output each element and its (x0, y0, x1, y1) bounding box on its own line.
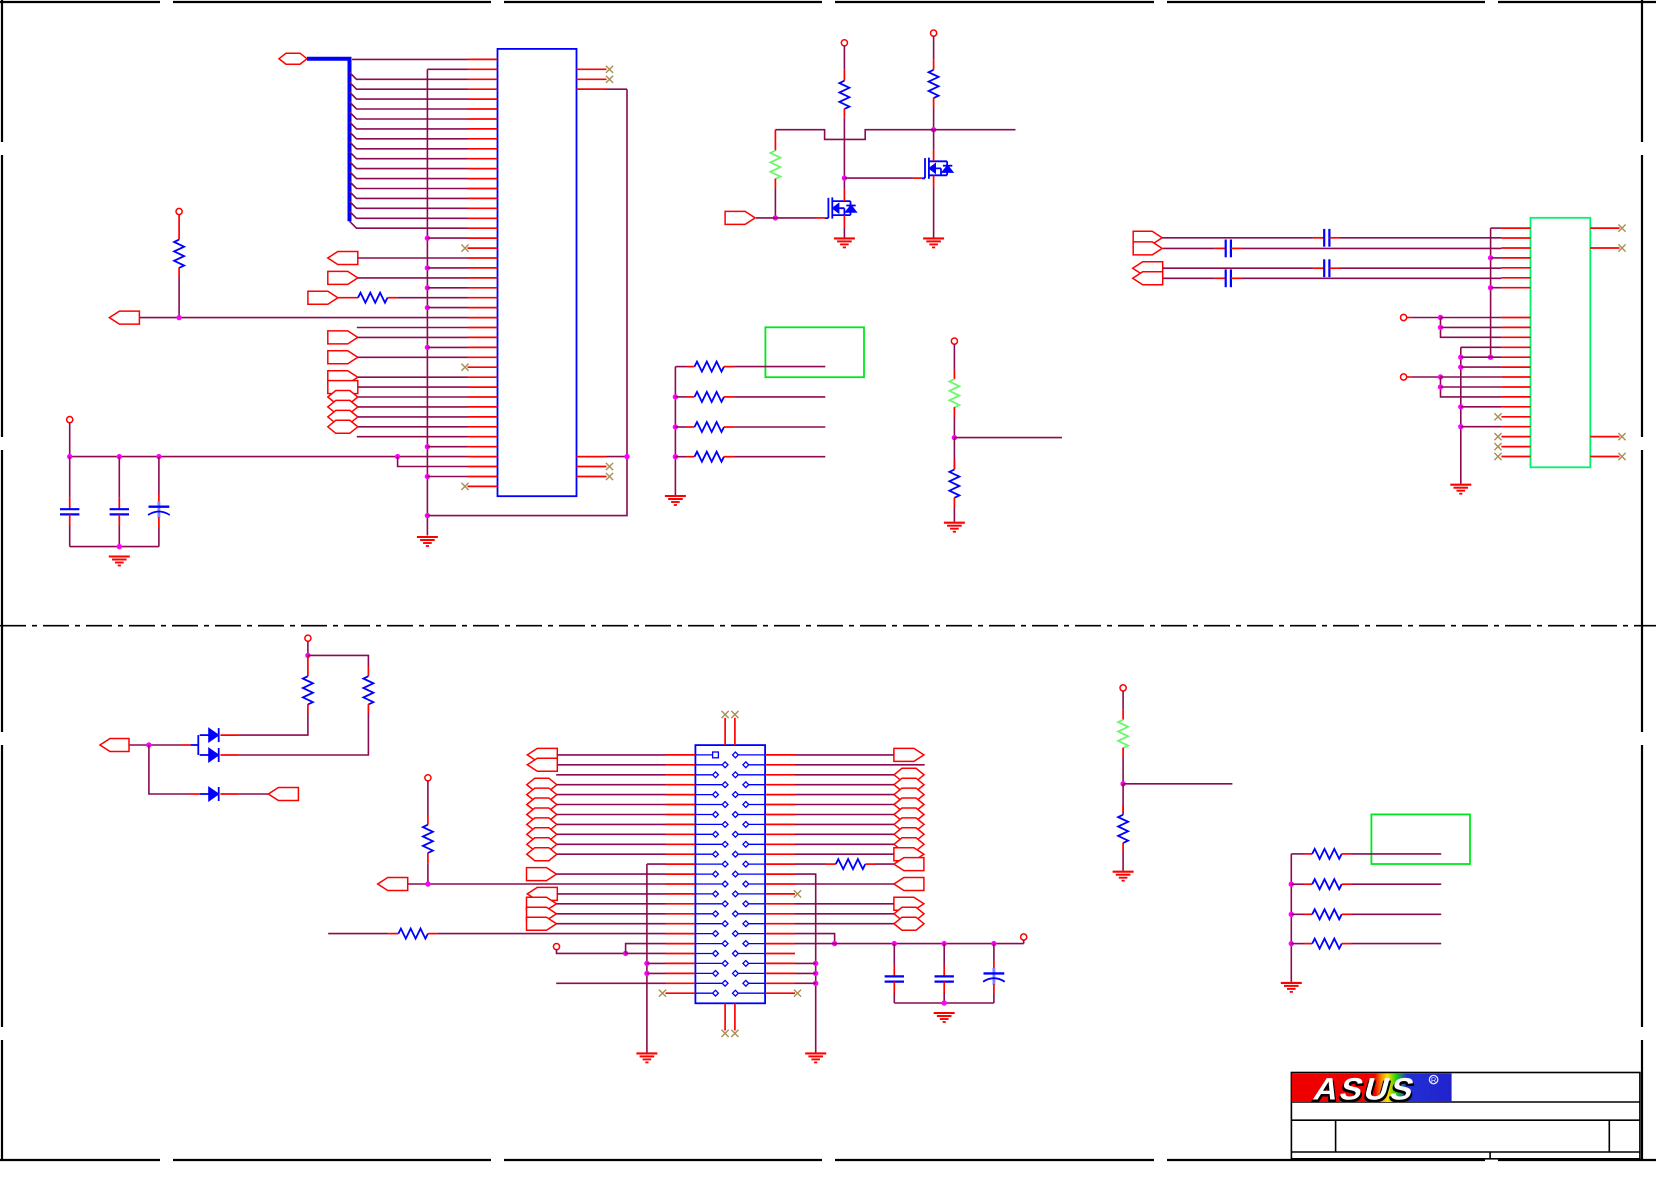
wire row0 to U1 (352, 58, 468, 60)
wire J1 R2 (795, 764, 925, 766)
pin stub C6 bottom (943, 982, 945, 993)
wire R5 to input (774, 189, 776, 218)
wire C3 lower (158, 527, 160, 547)
no-connect J1 bottom (722, 1030, 729, 1037)
wire port row20 (358, 257, 468, 259)
wire J1 L2 (557, 764, 665, 766)
pin stub RN2 right (724, 396, 734, 398)
no-connect J1 top (722, 711, 729, 718)
pin stub R15 top (1122, 805, 1124, 815)
power symbol P11 (1021, 934, 1027, 940)
pin stub U1 left pin 26 (468, 307, 498, 309)
wire diff2 b (1242, 247, 1501, 249)
wire RN1 out (734, 366, 825, 368)
bus entry wire row4 (350, 92, 468, 99)
pin stub U1 left pin 14 (468, 188, 498, 190)
power symbol P2 (931, 30, 937, 36)
wire P3 to bus3 (1411, 317, 1440, 319)
pin stub U3 left 5 (1501, 267, 1530, 269)
port J1 R14 (894, 878, 924, 891)
pin stub U1 left pin 22 (468, 267, 498, 269)
pin stub J1 left 10 (666, 843, 696, 845)
wire port row22 (358, 277, 468, 279)
wire C6 lead (943, 944, 945, 965)
pin stub U1 right pin41 (577, 466, 607, 468)
wire caps2 bottom bus (894, 1002, 994, 1004)
port J1 R8 (894, 818, 924, 831)
junction right bus (624, 454, 629, 459)
pin stub J1 left 4 (666, 784, 696, 786)
wire P6 down (69, 423, 71, 457)
pin stub J1 left 15 (666, 893, 696, 895)
port J1 R16 (894, 897, 924, 910)
wire J1 L1 (557, 754, 665, 756)
wire J1 R3 (795, 774, 894, 776)
no-connect U1 left pin20 (461, 245, 468, 252)
junction RN row4 (673, 454, 678, 459)
wire J1 L14 (408, 883, 666, 885)
pin stub J1 left 6 (666, 804, 696, 806)
pin stub D3 cathode (220, 793, 238, 795)
pin stub C5 top (893, 965, 895, 977)
wire bus2 row12 (1461, 346, 1502, 348)
power symbol P9 (951, 338, 957, 344)
pin stub R13 left (826, 863, 836, 865)
junction rail m (991, 941, 996, 946)
pin stub U3 left 3 (1501, 247, 1530, 249)
bus entry wire row6 (350, 112, 468, 119)
wire divider2 out (1123, 783, 1232, 785)
port out TX+ arrow (1133, 231, 1162, 244)
pin stub U3 left 6 (1501, 277, 1530, 279)
port J1 R18 (894, 917, 924, 930)
junction cap bus j (156, 454, 161, 459)
resistor RN2 (695, 392, 725, 402)
resistor R16 (423, 825, 433, 853)
pin stub U1 left pin 43 (468, 476, 498, 478)
port J1 R6 (894, 798, 924, 811)
pin stub J1 bottom (724, 1003, 726, 1030)
pin stub C6 right (1329, 267, 1340, 269)
ground Q1 (834, 238, 855, 247)
ground caps (109, 557, 130, 566)
pin stub U1 left pin 17 (468, 217, 498, 219)
pin stub R3 bottom (843, 109, 845, 118)
wire R9 to gnd (953, 507, 955, 522)
wire bus to U1 row39 (427, 446, 467, 448)
junction P7 node (305, 653, 310, 658)
pin stub R14 top (1122, 710, 1124, 720)
port bidir row37 (328, 420, 358, 433)
pin stub C7 right (1231, 277, 1242, 279)
pin stub RN2-4 right (1342, 943, 1352, 945)
pin stub J1 left 13 (666, 873, 696, 875)
pin stub U1 left pin 5 (468, 98, 498, 100)
pin stub U1 left pin 42 (468, 466, 498, 468)
wire diff4 b (1242, 277, 1501, 279)
port input gate (725, 211, 755, 224)
pin stub R10 top (307, 655, 309, 676)
wire C1 lead (69, 457, 71, 498)
wire diode anode lead (191, 744, 199, 746)
wire U3 bus1 (1490, 228, 1492, 357)
bus entry wire row2 (350, 72, 468, 79)
wire RN2-2 out (1352, 883, 1442, 885)
port J1 R1 (894, 748, 924, 761)
pin stub R13 right (865, 863, 875, 865)
wire port row36 (358, 416, 468, 418)
junction bus2 row20 (1458, 424, 1463, 429)
capacitor C6 (1324, 259, 1329, 277)
pin stub R7 top (178, 215, 180, 240)
wire C3 lead (158, 457, 160, 494)
wire P7 down (307, 641, 309, 655)
junction rail k (892, 941, 897, 946)
pin stub C3 bottom (158, 518, 160, 528)
junction gnd bus row21 (644, 961, 649, 966)
wire RN2-2 lead (1291, 883, 1303, 885)
wire RN2 bus (1290, 854, 1292, 982)
wire J1 R9 (795, 833, 894, 835)
pin stub C5 left (1215, 247, 1226, 249)
power symbol P7 (305, 635, 311, 641)
pin stub U1 left pin 24 (468, 287, 498, 289)
pin stub U1 left pin 3 (468, 78, 498, 80)
bus entry wire row10 (350, 152, 468, 159)
wire RN2 out (734, 396, 825, 398)
pin stub J1 left 7 (666, 814, 696, 816)
pin stub C4 right (1329, 237, 1340, 239)
pin stub U1 left pin 33 (468, 376, 498, 378)
pin stub J1 left 16 (666, 903, 696, 905)
junction RN2 row2 (1289, 882, 1294, 887)
diode D3 (200, 787, 219, 801)
port bidir row34 (328, 391, 358, 404)
wire J1 R14 (795, 883, 894, 885)
wire P12 down (427, 781, 429, 816)
pin stub J1 right 19 (765, 933, 795, 935)
pin stub U1 left pin 44 (468, 485, 498, 487)
wire vertical bus U1 left (426, 69, 428, 535)
port J1 L11 (527, 848, 557, 861)
pin stub U3 right 3 (1590, 247, 1619, 249)
svg-text:ASUS: ASUS (1310, 1072, 1420, 1106)
pin stub U1 left pin 34 (468, 386, 498, 388)
section divider dash-dot line (0, 625, 1656, 627)
port J1 L13 (527, 868, 557, 881)
wire port row37 (358, 426, 468, 428)
wire P8 stub (1122, 691, 1124, 710)
resistor R11 (363, 676, 373, 704)
wire bus to U1 row23 (427, 287, 467, 289)
svg-text:R: R (1431, 1075, 1437, 1084)
pin stub Q2 drain (933, 150, 935, 162)
wire U1 right pin3 (577, 88, 628, 90)
wire J1 L17 (557, 913, 666, 915)
power symbol P3 (1401, 314, 1407, 320)
wire port row30 (358, 356, 468, 358)
junction divider node (952, 435, 957, 440)
pin stub U1 left pin 10 (468, 148, 498, 150)
capacitor C4 (1324, 229, 1329, 247)
wire Q2 source to gnd (933, 188, 935, 239)
resistor R10 (303, 676, 313, 704)
pin stub U1 left pin 6 (468, 108, 498, 110)
wire J1 L7 (557, 814, 666, 816)
wire J1 L19 a (328, 933, 388, 935)
wire RN2-1 lead (1291, 853, 1303, 855)
port J1 L7 (527, 808, 557, 821)
junction RN2 row4 (1289, 941, 1294, 946)
wire J1 L18 (557, 923, 666, 925)
pin stub U1 right pin3 (577, 88, 607, 90)
wire R15 to gnd (1122, 852, 1124, 871)
port J1 R7 (894, 808, 924, 821)
pin stub U1 left pin 12 (468, 168, 498, 170)
wire row38 (357, 436, 468, 438)
wire J1 L22 (647, 962, 666, 964)
bus entry wire row16 (350, 211, 468, 218)
bus entry wire row15 (350, 201, 468, 208)
pin stub R15 bottom (1122, 843, 1124, 852)
wire J1 L13 (557, 873, 666, 875)
wire RN2-4 out (1352, 943, 1442, 945)
power symbol P1 (841, 40, 847, 46)
port J1 L1 (527, 748, 557, 761)
junction right bus row21 (813, 961, 818, 966)
wire J1 R11 (795, 853, 894, 855)
pin stub R10 bottom (307, 704, 309, 713)
wire C5 lower (893, 993, 895, 1003)
wire port to Q1 gate (756, 217, 816, 219)
resistor R13 (836, 859, 866, 869)
pin stub R12 left (388, 933, 398, 935)
pin stub U1 left pin 41 (468, 456, 498, 458)
wire J1 L9 (557, 833, 666, 835)
wire J1 L12 from bus (647, 863, 666, 865)
pin stub J1 right 7 (765, 814, 795, 816)
wire P11 stub (1023, 940, 1025, 944)
wire J1 R17 (795, 913, 894, 915)
no-connect U1 right pin2 (606, 76, 613, 83)
junction cap bus i (117, 454, 122, 459)
pin stub U1 left pin 32 (468, 366, 498, 368)
pin stub J1 right 9 (765, 833, 795, 835)
wire bus2 row20 (1461, 426, 1502, 428)
pin stub J1 right 17 (765, 913, 795, 915)
junction R19 tap (832, 941, 837, 946)
wire RN2-4 lead (1291, 943, 1303, 945)
pin stub RN2-2 right (1342, 883, 1352, 885)
pin stub U1 right pin40 (577, 456, 607, 458)
power symbol P10 (553, 944, 559, 950)
no-connect U3 left row21 (1494, 433, 1501, 440)
bus entry wire row12 (350, 172, 468, 179)
wire RN3 out (734, 426, 825, 428)
pin stub resistor R6 right (388, 297, 398, 299)
wire bus2 row13 (1461, 356, 1502, 358)
wire C6 lower (943, 993, 945, 1003)
resistor R15 (1118, 815, 1128, 843)
pin stub J1 left 3 (666, 774, 696, 776)
pin stub R11 top (367, 666, 369, 676)
junction b on U1 bus (425, 265, 430, 270)
pin stub C4 left (1313, 237, 1324, 239)
wire port row28 (358, 336, 468, 338)
port J1 R11 (894, 848, 924, 861)
wire diff3 b (1341, 267, 1502, 269)
pin stub U1 left pin 9 (468, 138, 498, 140)
port J1 L4 (527, 778, 557, 791)
pin stub J1 left 25 (666, 992, 696, 994)
junction RN2 row3 (1289, 912, 1294, 917)
pin stub U1 left pin 7 (468, 118, 498, 120)
port J1 R3 (894, 768, 924, 781)
pin stub D3 anode (190, 793, 200, 795)
pin stub J1 right 16 (765, 903, 795, 905)
pin stub J1 left 5 (666, 794, 696, 796)
annotation green box GB1 (765, 327, 864, 377)
wire J1 L24 (556, 982, 665, 984)
pin stub C7 top (993, 961, 995, 969)
junction right bus row22 (813, 971, 818, 976)
no-connect U3 left row19 (1494, 413, 1501, 420)
pin stub U1 left pin 19 (468, 237, 498, 239)
junction bus1 end (1488, 355, 1493, 360)
pin stub R5 bottom (774, 179, 776, 189)
ground U1 bus (417, 537, 438, 546)
wire RN2 lead (675, 396, 686, 398)
wire P7 branch (308, 655, 369, 666)
wire RN bus (674, 367, 676, 496)
port J1 L9 (527, 828, 557, 841)
capacitor C1 (60, 509, 79, 514)
bus entry wire row5 (350, 102, 468, 109)
wire J1 L10 (557, 843, 666, 845)
wire P4 stub (1407, 376, 1412, 378)
wire D3 out (239, 793, 269, 795)
junction c on U1 bus (425, 285, 430, 290)
port J1 R5 (894, 788, 924, 801)
wire R6 to U1 (397, 297, 467, 299)
port J1 L5 (527, 788, 557, 801)
port J1 L2 (527, 758, 557, 771)
wire bus to U1 row29 (427, 346, 467, 348)
port input ESD (100, 739, 129, 752)
power symbol P12 (425, 775, 431, 781)
junction P5 node (176, 315, 181, 320)
capacitor C3 polarized (148, 501, 170, 518)
wire P9 stub (953, 344, 955, 369)
wire P4 to bus4 (1411, 376, 1440, 378)
pin stub R7 bottom (178, 268, 180, 277)
pin stub C3 top (158, 494, 160, 502)
wire J1 R8 (795, 823, 894, 825)
wire diff2 a (1163, 247, 1215, 249)
wire Q1 source to gnd (843, 227, 845, 238)
pin stub J1 right 3 (765, 774, 795, 776)
wire diff1 a (1162, 237, 1313, 239)
pin stub RN2-3 left (1304, 913, 1313, 915)
wire J1 R12 b (875, 863, 894, 865)
pin stub RN2-1 left (1304, 853, 1313, 855)
pin stub R9 bottom (953, 498, 955, 508)
pin stub U1 left pin 20 (468, 247, 498, 249)
port DDC left arrow (328, 252, 358, 265)
junction caps2 bottom (942, 1000, 947, 1005)
wire anode to port (129, 744, 182, 746)
transistor Q2 (922, 158, 953, 179)
pin stub J1 left 14 (666, 883, 696, 885)
wire power rail row20 (795, 943, 1024, 945)
wire row27 (357, 327, 468, 329)
junction anode node (146, 742, 151, 747)
pin stub U1 left pin 31 (468, 356, 498, 358)
wire R14 to node (1122, 757, 1124, 784)
pin stub U3 right 22 (1590, 436, 1619, 438)
wire R11 to D2 (239, 713, 369, 755)
resistor R8 green (949, 379, 959, 407)
wire P3 stub (1407, 317, 1412, 319)
pin stub U1 right pin1 (577, 68, 607, 70)
power symbol P6 (67, 417, 73, 423)
capacitor C5 (885, 976, 904, 981)
resistor RN3 (695, 422, 725, 432)
ground J1 right (805, 1053, 826, 1062)
pin stub J1 left 2 (666, 764, 696, 766)
pin stub R16 bottom (427, 853, 429, 864)
wire Q2 drain (933, 130, 935, 150)
pin stub J1 left 20 (666, 943, 696, 945)
port J1 R12 (894, 858, 924, 871)
wire J1 R16 (795, 903, 894, 905)
junction bus4 a (1438, 374, 1443, 379)
pin stub U3 left 13 (1501, 346, 1530, 348)
wire U1 right pin40 (607, 456, 628, 458)
bus entry wire row9 (350, 142, 468, 149)
wire C5 lead (893, 944, 895, 965)
pin stub J1 right 5 (765, 794, 795, 796)
wire J1 L15 (557, 893, 665, 895)
port J1 R9 (894, 828, 924, 841)
junction R16 row13 (425, 881, 430, 886)
wire bus3 v (1441, 318, 1502, 338)
pin stub U3 left 18 (1501, 396, 1530, 398)
port out row24 (308, 291, 338, 304)
pin stub R14 bottom (1122, 748, 1124, 757)
pin stub C7 bottom (993, 984, 995, 994)
pin stub J1 right 24 (765, 982, 795, 984)
junction bus1 row6 (1488, 285, 1493, 290)
pin stub R4 top (933, 60, 935, 70)
wire jog row41 (398, 457, 468, 467)
pin stub resistor R6 left (338, 297, 358, 299)
junction RN row2 (673, 394, 678, 399)
pin stub U1 left pin 11 (468, 158, 498, 160)
pin stub J1 top (724, 718, 726, 745)
pin stub RN2-2 left (1304, 883, 1313, 885)
junction rail l (942, 941, 947, 946)
pin stub J1 right 20 (765, 943, 795, 945)
resistor RN2-1 (1312, 849, 1342, 859)
pin stub C1 bottom (69, 514, 71, 526)
resistor R4 (929, 70, 939, 98)
junction gate input (773, 215, 778, 220)
wire J1 R19 (795, 934, 835, 944)
resistor R7 (174, 240, 184, 268)
pin stub U1 left pin 36 (468, 406, 498, 408)
port J1 L6 (527, 798, 557, 811)
